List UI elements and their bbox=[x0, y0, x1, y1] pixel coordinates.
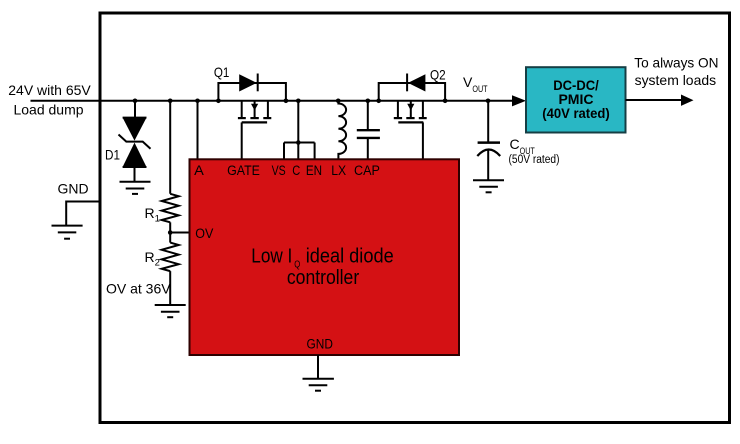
svg-text:C: C bbox=[292, 163, 300, 178]
svg-text:To always ON: To always ON bbox=[634, 55, 718, 71]
capacitor: CAP pin cap bbox=[357, 130, 380, 160]
node: COUT tap on rail bbox=[486, 99, 491, 104]
svg-text:Q1: Q1 bbox=[214, 64, 230, 80]
ground: chassis bbox=[52, 226, 83, 239]
wire: R1 to R2 bbox=[169, 222, 171, 242]
diode: Q2 body diode bbox=[407, 74, 425, 92]
pin label: GATE bbox=[227, 163, 260, 178]
label: 24V with 65V Load dump bbox=[8, 82, 91, 117]
label: GND (chassis) bbox=[58, 181, 89, 197]
wire: D1 to ground bbox=[134, 167, 136, 181]
transistor Q2 (MOSFET) bbox=[394, 101, 427, 160]
wire: VS pin drop bbox=[283, 143, 285, 161]
svg-text:VOUT: VOUT bbox=[463, 74, 488, 94]
node: VS/C/EN junction bbox=[296, 140, 301, 145]
label: R2 bbox=[145, 249, 160, 269]
pin label: VS bbox=[272, 163, 286, 178]
label: Low IQ ideal diode controller bbox=[251, 245, 393, 288]
node: Q2 loop right bbox=[443, 99, 448, 104]
block: DC-DC/PMIC (40V rated) bbox=[526, 67, 626, 132]
wire: Q2 diode loop bbox=[379, 83, 445, 101]
wire: main 24V input rail bbox=[31, 100, 514, 102]
node: VS/C/EN tap on rail bbox=[296, 99, 301, 104]
pin label: A bbox=[194, 163, 204, 178]
diode D1 (bidirectional TVS) bbox=[119, 118, 151, 167]
ground: below COUT bbox=[473, 180, 504, 192]
node: Q1 loop right bbox=[284, 99, 289, 104]
svg-text:GND: GND bbox=[307, 336, 334, 351]
node: LX inductor tap on rail bbox=[336, 99, 341, 104]
wire: rail to COUT bbox=[487, 101, 489, 142]
wire: rail to D1 bbox=[134, 101, 136, 118]
node: CAP capacitor tap on rail bbox=[366, 99, 371, 104]
svg-text:24V with 65V: 24V with 65V bbox=[8, 82, 91, 98]
wire: rail to CAP capacitor bbox=[367, 101, 369, 130]
svg-text:R1: R1 bbox=[145, 205, 160, 225]
wire: rail to A pin bbox=[197, 101, 199, 160]
wire: DC-DC output bbox=[626, 99, 683, 101]
svg-text:R2: R2 bbox=[145, 249, 160, 269]
svg-text:(50V rated): (50V rated) bbox=[509, 154, 560, 166]
label: OV at 36V bbox=[106, 281, 171, 297]
svg-text:EN: EN bbox=[306, 163, 322, 178]
pin label: OV bbox=[195, 226, 213, 241]
resistor R1 bbox=[162, 194, 179, 223]
capacitor COUT (polarized) bbox=[477, 143, 500, 180]
svg-text:OV at 36V: OV at 36V bbox=[106, 281, 171, 297]
label: To always ON system loads bbox=[634, 55, 718, 88]
wire: Q1 diode loop bbox=[218, 83, 286, 101]
svg-text:A: A bbox=[194, 163, 204, 178]
block: Low IQ ideal diode controller bbox=[190, 159, 460, 355]
svg-text:GATE: GATE bbox=[227, 163, 260, 178]
label: Q2 bbox=[430, 66, 446, 82]
ground: below D1 bbox=[120, 182, 151, 194]
arrow: into DC-DC block bbox=[512, 95, 526, 106]
wire: EN pin drop bbox=[314, 143, 316, 161]
ground: below R2 bbox=[155, 305, 186, 317]
node: OV divider junction bbox=[168, 230, 173, 235]
label: R1 bbox=[145, 205, 160, 225]
pin label: LX bbox=[331, 163, 346, 178]
inductor to LX pin bbox=[338, 101, 346, 160]
wire: controller GND pin bbox=[317, 355, 319, 379]
svg-text:GND: GND bbox=[58, 181, 89, 197]
wire: R2 to ground bbox=[169, 271, 171, 305]
svg-text:Q2: Q2 bbox=[430, 66, 446, 82]
transistor Q1 (MOSFET) bbox=[238, 101, 271, 160]
svg-text:VS: VS bbox=[272, 163, 286, 178]
pin label: CAP bbox=[354, 163, 380, 178]
wire: chassis ground stub bbox=[66, 202, 99, 226]
wire: OV node to block bbox=[170, 232, 190, 234]
pin label: EN bbox=[306, 163, 322, 178]
wire: rail to R1 bbox=[169, 101, 171, 194]
node: R1 tap on rail bbox=[168, 99, 173, 104]
node: A pin tap on rail bbox=[195, 99, 200, 104]
wire: rail down to C pin bar bbox=[297, 101, 299, 143]
svg-text:CAP: CAP bbox=[354, 163, 380, 178]
border frame bbox=[100, 13, 730, 423]
node: Q1 loop left bbox=[216, 99, 221, 104]
label: VOUT net bbox=[463, 74, 488, 94]
svg-text:system loads: system loads bbox=[635, 72, 717, 88]
pin label: C bbox=[292, 163, 300, 178]
svg-text:Load dump: Load dump bbox=[13, 101, 83, 117]
pin label: GND bbox=[307, 336, 334, 351]
svg-text:LX: LX bbox=[331, 163, 346, 178]
resistor R2 bbox=[162, 243, 179, 272]
wire: C pin drop bbox=[297, 143, 299, 161]
svg-text:D1: D1 bbox=[105, 147, 120, 163]
label: COUT (50V rated) bbox=[509, 136, 560, 166]
svg-text:ideal diode: ideal diode bbox=[306, 245, 394, 267]
label: D1 bbox=[105, 147, 120, 163]
svg-text:Low I: Low I bbox=[251, 245, 292, 267]
diode: Q1 body diode bbox=[239, 74, 258, 92]
ground: controller bbox=[303, 379, 334, 391]
label: Q1 bbox=[214, 64, 230, 80]
svg-text:(40V rated): (40V rated) bbox=[542, 105, 610, 121]
svg-text:OV: OV bbox=[195, 226, 213, 241]
node: Q2 loop left bbox=[376, 99, 381, 104]
wire: VS-C-EN tie bar bbox=[284, 142, 315, 144]
node: D1 tap on rail bbox=[133, 99, 138, 104]
svg-text:controller: controller bbox=[287, 267, 360, 289]
arrow: to system loads bbox=[681, 95, 694, 106]
